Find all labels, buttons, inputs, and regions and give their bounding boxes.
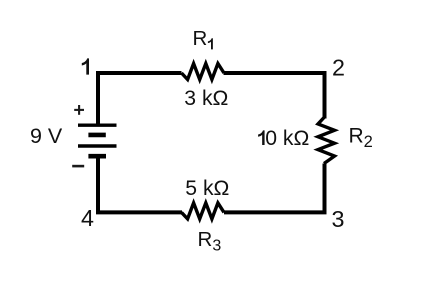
svg-text:2: 2	[332, 55, 345, 81]
svg-text:5 kΩ: 5 kΩ	[185, 177, 229, 200]
svg-text:3 kΩ: 3 kΩ	[184, 87, 228, 110]
svg-text:R3: R3	[198, 228, 222, 255]
wire node1 top-left: battery positive up to corner 1 and right to R1	[98, 73, 182, 125]
svg-text:3: 3	[332, 206, 345, 232]
svg-text:9 V: 9 V	[30, 124, 63, 148]
battery plate short upper	[88, 133, 105, 138]
svg-text:0 kΩ: 0 kΩ	[265, 127, 309, 150]
resistor R3 zigzag	[182, 203, 225, 219]
battery plate long lower	[78, 144, 117, 148]
svg-text:R: R	[193, 27, 208, 50]
wire node4 bottom-left: R3 left to corner 4 and up to battery negative	[98, 157, 182, 212]
minus sign	[72, 165, 84, 168]
svg-text:R2: R2	[349, 125, 373, 151]
resistor R1 zigzag	[182, 64, 225, 80]
wire node2 top-right: R1 right to corner 2 and down to R2	[224, 73, 325, 119]
plus sign	[74, 105, 84, 115]
battery B1 9V plates	[78, 125, 117, 156]
battery plate long top (positive)	[78, 123, 117, 126]
svg-text:4: 4	[81, 205, 94, 231]
wire node3 bottom-right: R2 bottom down to corner 3 and left to R3	[224, 164, 325, 213]
battery plate short bottom (negative)	[88, 154, 106, 159]
node label 1	[82, 58, 89, 74]
resistor R2 zigzag	[318, 118, 335, 164]
